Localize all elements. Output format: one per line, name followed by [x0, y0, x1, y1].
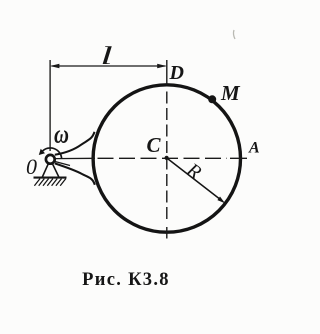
omega rotation arc	[42, 148, 61, 158]
svg-text:0: 0	[26, 154, 37, 179]
point M dot	[208, 95, 216, 103]
omega arrowhead	[39, 149, 45, 155]
left dimension arrowhead	[50, 64, 59, 69]
right dimension arrowhead	[157, 64, 166, 69]
link inner fan line	[55, 162, 70, 166]
svg-text:l: l	[100, 42, 113, 69]
svg-text:ω: ω	[54, 120, 69, 149]
link O-C trumpet bottom curve	[55, 163, 95, 184]
ground line	[34, 177, 67, 179]
link center line	[55, 157, 95, 159]
pivot pin O	[46, 155, 55, 164]
svg-text:D: D	[169, 62, 184, 84]
svg-text:Рис. К3.8: Рис. К3.8	[82, 270, 170, 290]
svg-text:A: A	[248, 140, 260, 157]
vertical center line through D and C	[166, 60, 168, 239]
dimension extension line at O	[49, 60, 51, 151]
center dot C	[165, 156, 169, 160]
horizontal center line through C and A	[98, 157, 248, 159]
dimension line l	[52, 65, 166, 67]
svg-text:C: C	[147, 133, 162, 157]
svg-text:M: M	[220, 81, 241, 105]
scan speck	[233, 30, 235, 39]
radius arrowhead	[217, 197, 225, 204]
link O-C trumpet top curve	[55, 132, 95, 155]
disk circle	[93, 85, 240, 232]
radius arrow R	[167, 158, 222, 201]
support triangle	[42, 159, 59, 177]
svg-text:R: R	[182, 158, 205, 184]
ground hatching	[34, 179, 65, 186]
